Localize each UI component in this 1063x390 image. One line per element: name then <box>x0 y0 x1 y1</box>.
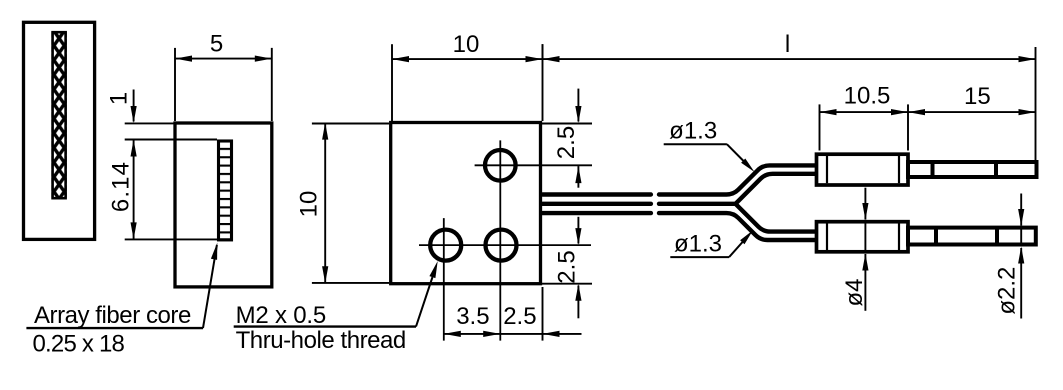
dimension ø2.2 (lower tube diameter) <box>1020 194 1022 319</box>
crosshair lines <box>419 140 592 340</box>
middle fork down (lower fiber top) <box>736 204 818 232</box>
svg-text:6.14: 6.14 <box>108 161 135 212</box>
view2 fiber array strip (ladder) <box>217 140 233 242</box>
dimension ø4 (lower ferrule diameter) <box>864 188 866 311</box>
lower tube dividers <box>934 228 938 245</box>
leader line to array <box>203 245 217 328</box>
dimension 1 (array offset from top) <box>125 90 175 124</box>
view1 fiber array strip (crosshatched) <box>51 31 66 199</box>
dimension 10 (block width, top) <box>392 44 543 121</box>
dimension 6.14 (array length) <box>125 140 217 240</box>
dimension 10 (block height, left) <box>312 123 389 284</box>
svg-text:ø2.2: ø2.2 <box>993 267 1020 315</box>
block outline <box>391 123 541 284</box>
leader arrowhead <box>429 261 437 278</box>
upper tube dividers <box>931 162 935 177</box>
top line into upper fiber top <box>659 165 817 194</box>
dimension 2.5 (bottom right) <box>541 217 593 318</box>
svg-text:3.5: 3.5 <box>456 303 489 330</box>
cable segment 2 with Y split <box>659 165 817 240</box>
svg-text:2.5: 2.5 <box>503 303 536 330</box>
dimension 2.5 (top right) <box>541 89 593 188</box>
bottom-left hole circle <box>430 230 461 261</box>
svg-text:ø1.3: ø1.3 <box>669 118 717 145</box>
svg-text:Thru-hole thread: Thru-hole thread <box>236 327 406 354</box>
svg-text:l: l <box>785 31 790 58</box>
svg-text:0.25 x 18: 0.25 x 18 <box>33 331 125 358</box>
lower ferrule body <box>817 222 909 252</box>
svg-text:M2 x 0.5: M2 x 0.5 <box>236 302 326 329</box>
leader underline <box>234 325 416 327</box>
leader arrowhead <box>211 243 217 260</box>
upper ferrule body <box>817 154 909 185</box>
dimension 15 (tube length) <box>908 111 1036 113</box>
svg-text:1: 1 <box>106 92 133 105</box>
lower ferrule inner lines <box>826 224 828 251</box>
view2 outline <box>175 123 272 287</box>
svg-text:ø1.3: ø1.3 <box>674 231 722 258</box>
svg-text:2.5: 2.5 <box>554 250 581 283</box>
leader underline <box>26 327 203 329</box>
top hole circle <box>485 150 516 181</box>
dimension l (cable length) <box>543 44 1036 160</box>
svg-text:15: 15 <box>964 83 991 110</box>
svg-text:Array fiber core: Array fiber core <box>34 302 191 329</box>
middle line forking up (upper fiber bottom) <box>659 174 817 204</box>
upper tube <box>908 162 1037 177</box>
dimension 10.5 (ferrule length) <box>820 104 909 150</box>
svg-text:ø4: ø4 <box>841 278 868 306</box>
bottom line into lower fiber bottom <box>659 213 817 240</box>
svg-text:5: 5 <box>210 31 223 58</box>
bottom-right hole circle <box>486 230 517 261</box>
dimension 5 (view2 width) <box>175 48 272 121</box>
leader line to hole <box>416 277 433 327</box>
svg-text:10.5: 10.5 <box>844 83 891 110</box>
svg-text:2.5: 2.5 <box>553 126 580 159</box>
svg-text:10: 10 <box>453 31 480 58</box>
lower tube <box>908 228 1036 245</box>
dimension 3.5 / 2.5 (bottom) <box>444 287 582 341</box>
svg-text:10: 10 <box>296 191 323 218</box>
upper ferrule inner lines <box>826 156 828 183</box>
cable segment 1 (three lines) <box>543 195 651 214</box>
view1 outline <box>24 22 95 239</box>
